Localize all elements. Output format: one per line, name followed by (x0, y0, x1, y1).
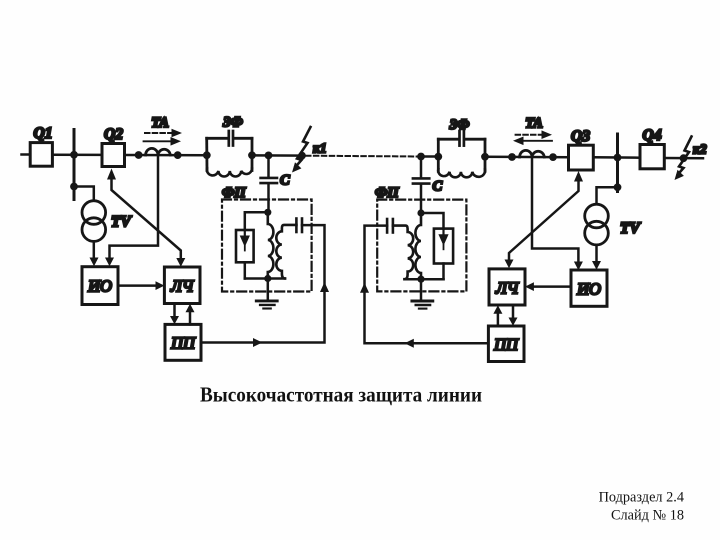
wire bus Q1 to Q2 (52, 153, 100, 156)
svg-text:Q3: Q3 (571, 128, 590, 145)
FP right output capacitor (386, 219, 389, 233)
svg-text:ПП: ПП (170, 334, 196, 353)
TA right dashed arrow (516, 134, 542, 136)
node ZF right left terminal (434, 153, 442, 161)
wire FP right bottom rail (405, 278, 444, 281)
node line side right (417, 153, 425, 161)
svg-text:TV: TV (620, 220, 641, 237)
busbar tick right (616, 134, 619, 192)
coupling capacitor C right (420, 157, 423, 178)
wire TA left secondary to IO (110, 156, 159, 259)
wire to arrester right (421, 213, 444, 229)
svg-text:С: С (433, 179, 443, 195)
svg-text:ЗФ: ЗФ (222, 115, 243, 131)
ZF right inductor scallops (438, 169, 485, 177)
wire TA right secondary to IO (532, 158, 578, 263)
wire arrester right bottom (442, 264, 445, 280)
node FP right bottom (417, 276, 424, 283)
transformer primary right FP (415, 213, 421, 279)
ZF left capacitor plates (227, 131, 230, 146)
FP left output capacitor (295, 219, 298, 233)
ZF left inductor scallops (207, 169, 252, 177)
arrow PP to LC (189, 312, 192, 324)
node after TA right (549, 153, 557, 161)
node ZF right terminal (248, 151, 256, 159)
wire protected line dashed (306, 155, 420, 158)
arrow LC to PP (173, 304, 176, 317)
wire ZF right to Q3 (485, 156, 569, 159)
breaker Q3 (569, 145, 594, 170)
transceiver PP left (165, 324, 201, 360)
filter FP left box (222, 200, 312, 292)
wire Q3 to Q4 (593, 156, 640, 159)
fault k2 lightning (678, 137, 692, 175)
wire TV to IO arrow (93, 241, 96, 258)
relay IO left (82, 267, 118, 305)
arrow IO to LC (118, 284, 157, 287)
ZF right capacitor plates (458, 131, 461, 145)
filter FP right box (377, 200, 466, 292)
breaker Q1 (30, 143, 52, 167)
ground left (267, 279, 270, 301)
svg-text:ФП: ФП (222, 185, 246, 201)
wire trip link LC to Q3 diagonal (509, 181, 579, 260)
wire FP right output down (365, 226, 489, 344)
arrester FV left (236, 230, 254, 262)
current transformer TA right coil (520, 150, 545, 157)
arrow IO to LC right (534, 285, 572, 288)
svg-text:ЛЧ: ЛЧ (495, 279, 520, 298)
fault k1 lightning (296, 127, 311, 167)
TA left solid arrow (144, 140, 172, 142)
arrow PP to LC right (497, 314, 500, 327)
transformer secondary left FP (276, 225, 296, 279)
arrester FV right (434, 229, 453, 264)
node coupling C left (265, 152, 273, 160)
arrow LC to PP right (512, 305, 515, 318)
breaker Q4 (640, 145, 664, 169)
node FP right top (417, 209, 424, 216)
wire TV branch (74, 187, 94, 201)
wire trip link LC to Q2 diagonal (112, 179, 181, 258)
node ZF right right terminal (481, 153, 489, 161)
transformer secondary right FP (393, 226, 413, 280)
TA left dashed arrow (145, 132, 172, 134)
node before TA right (508, 153, 516, 161)
voltage transformer TV right (585, 204, 609, 228)
wire TV branch right (597, 187, 618, 204)
node FP left top (264, 209, 271, 216)
transceiver PP right (488, 326, 524, 362)
busbar tick left (73, 130, 76, 200)
relay LC left (164, 267, 200, 304)
wire Q4 to k2 (664, 157, 703, 160)
svg-text:ТА: ТА (151, 115, 169, 131)
svg-text:к1: к1 (313, 141, 327, 156)
node TV tap right (614, 183, 622, 191)
node k2 (680, 154, 688, 162)
relay LC right (489, 269, 525, 305)
node ZF left terminal (203, 151, 211, 159)
svg-text:к2: к2 (693, 142, 707, 157)
svg-text:Q4: Q4 (643, 127, 662, 144)
svg-text:Q1: Q1 (34, 125, 53, 142)
svg-text:ТА: ТА (525, 116, 543, 132)
current transformer TA left coil (146, 148, 171, 155)
relay IO right (571, 270, 607, 306)
svg-text:ПП: ПП (493, 335, 519, 354)
ground right (420, 279, 423, 300)
transformer primary left FP (268, 212, 274, 278)
wire to arrester left (245, 212, 268, 230)
svg-text:С: С (280, 173, 290, 189)
wire bus right of dashed (421, 155, 438, 158)
svg-text:ИО: ИО (87, 277, 112, 296)
svg-text:ЛЧ: ЛЧ (170, 277, 195, 296)
wire bus left stub (22, 153, 30, 156)
node after TA (174, 151, 182, 159)
svg-text:Подраздел 2.4: Подраздел 2.4 (599, 490, 684, 506)
wire bus Q2 to trap (125, 154, 208, 157)
breaker Q2 (102, 144, 125, 167)
svg-text:TV: TV (111, 214, 132, 231)
node before TA (135, 151, 143, 159)
voltage transformer TV left (82, 201, 106, 225)
node k1 (298, 152, 306, 160)
svg-text:Слайд № 18: Слайд № 18 (611, 508, 684, 524)
node bus-tick right (614, 154, 622, 162)
svg-text:ИО: ИО (576, 280, 601, 299)
wire arrester bottom (244, 262, 247, 278)
node FP left bottom (264, 275, 271, 282)
node TV tap (70, 183, 78, 191)
svg-text:Высокочастотная защита линии: Высокочастотная защита линии (200, 383, 482, 407)
wire FP left output down (201, 225, 325, 342)
coupling capacitor C left (267, 155, 270, 176)
svg-text:ФП: ФП (375, 185, 399, 201)
wire trap to k1 (252, 154, 304, 157)
TA right solid arrow (523, 140, 552, 142)
wire FP left bottom rail (245, 277, 285, 280)
svg-text:Q2: Q2 (104, 126, 123, 143)
wire TV right to IO arrow (595, 245, 598, 262)
node bus-tick junction (70, 151, 78, 159)
